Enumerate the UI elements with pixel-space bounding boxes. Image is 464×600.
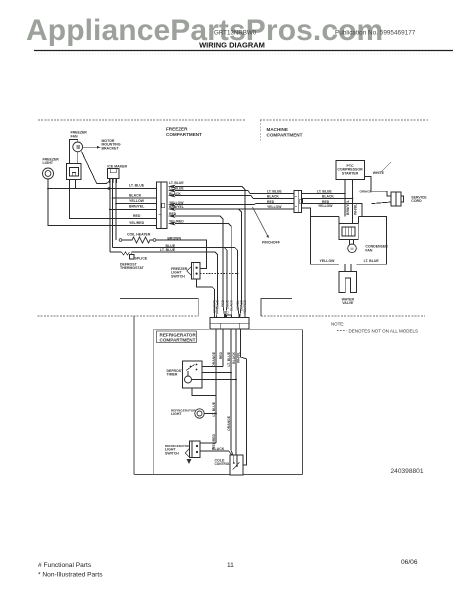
svg-text:CORD: CORD — [411, 199, 422, 203]
svg-text:LT. BLUE: LT. BLUE — [169, 187, 184, 191]
svg-text:YELLOW: YELLOW — [318, 204, 333, 208]
svg-text:TIMER: TIMER — [167, 373, 178, 377]
svg-text:VALVE: VALVE — [342, 301, 354, 305]
svg-text:SWITCH: SWITCH — [165, 451, 179, 455]
svg-text:LT. BLUE: LT. BLUE — [267, 190, 282, 194]
svg-text:YELLOW: YELLOW — [129, 199, 145, 203]
svg-text:Publication No. 5995469177: Publication No. 5995469177 — [335, 30, 416, 37]
svg-text:LT. BLUE: LT. BLUE — [212, 401, 216, 416]
svg-text:BRN/YEL: BRN/YEL — [346, 200, 350, 215]
svg-text:ORANGE: ORANGE — [227, 415, 231, 431]
svg-text:BRACKET: BRACKET — [102, 146, 120, 150]
svg-text:NOTE:: NOTE: — [331, 322, 344, 327]
svg-text:PINCHOFF: PINCHOFF — [262, 241, 281, 245]
svg-text:* Non-Illustrated Parts: * Non-Illustrated Parts — [38, 572, 103, 579]
svg-text:YEL/RED: YEL/RED — [212, 433, 216, 448]
svg-text:BRN/YEL: BRN/YEL — [129, 205, 145, 209]
svg-text:ICE MAKER: ICE MAKER — [107, 165, 127, 169]
svg-text:LT. BLUE: LT. BLUE — [227, 351, 231, 366]
svg-text:RED: RED — [169, 212, 177, 216]
svg-text:COMPARTMENT: COMPARTMENT — [267, 132, 303, 137]
svg-text:LT. BLUE: LT. BLUE — [169, 181, 184, 185]
svg-text:M: M — [351, 247, 354, 251]
svg-text:BLUE: BLUE — [166, 244, 176, 248]
svg-text:BRN/YEL: BRN/YEL — [169, 205, 184, 209]
svg-text:RED: RED — [133, 214, 141, 218]
svg-text:BROWN: BROWN — [167, 236, 181, 240]
svg-text:06/06: 06/06 — [401, 559, 418, 566]
svg-text:LIGHT: LIGHT — [171, 412, 182, 416]
svg-text:11: 11 — [227, 562, 234, 569]
svg-text:BLACK: BLACK — [129, 193, 142, 197]
svg-text:YELLOW: YELLOW — [169, 201, 184, 205]
svg-text:COMPARTMENT: COMPARTMENT — [166, 132, 202, 137]
svg-text:BLACK: BLACK — [232, 351, 236, 363]
svg-text:BLACK: BLACK — [267, 195, 279, 199]
svg-text:CONTROL: CONTROL — [215, 462, 231, 466]
svg-text:FAN: FAN — [71, 134, 78, 138]
svg-text:240398801: 240398801 — [391, 468, 424, 475]
svg-text:STARTER: STARTER — [342, 171, 359, 175]
svg-text:WIRING DIAGRAM: WIRING DIAGRAM — [199, 41, 265, 50]
svg-text:BLACK: BLACK — [230, 299, 234, 311]
svg-text:ORN/GE: ORN/GE — [360, 190, 372, 194]
svg-text:LT. BLUE: LT. BLUE — [160, 248, 176, 252]
svg-text:LT. BLUE: LT. BLUE — [129, 184, 145, 188]
svg-text:YELLOW: YELLOW — [320, 259, 336, 263]
svg-text:YELLOW: YELLOW — [267, 205, 282, 209]
svg-text:BLUE: BLUE — [216, 299, 220, 308]
svg-text:WH/BL: WH/BL — [353, 204, 357, 215]
svg-text:BLACK: BLACK — [322, 195, 334, 199]
svg-text:SWITCH: SWITCH — [171, 274, 185, 278]
svg-text:LIGHT: LIGHT — [43, 161, 54, 165]
svg-text:# Functional Parts: # Functional Parts — [38, 562, 92, 569]
svg-text:BLACK: BLACK — [169, 192, 181, 196]
svg-text:MACHINE: MACHINE — [267, 127, 288, 132]
svg-text:YEL/RED: YEL/RED — [169, 220, 184, 224]
svg-text:ORANGE: ORANGE — [212, 351, 216, 367]
svg-text:SPLICE: SPLICE — [135, 256, 148, 260]
svg-text:FAN: FAN — [365, 248, 372, 252]
svg-text:RED: RED — [219, 351, 223, 359]
svg-text:COMPARTMENT: COMPARTMENT — [160, 338, 196, 343]
svg-text:YEL/RED: YEL/RED — [129, 221, 145, 225]
svg-text:GRT13NRBW0: GRT13NRBW0 — [214, 30, 257, 37]
svg-text:YEL/RED: YEL/RED — [243, 299, 247, 314]
svg-text:WHITE: WHITE — [373, 171, 385, 175]
svg-text:FREEZER: FREEZER — [166, 127, 188, 132]
svg-text:DENOTES NOT ON ALL MODELS: DENOTES NOT ON ALL MODELS — [349, 328, 419, 333]
svg-text:RED: RED — [267, 200, 275, 204]
svg-text:WH/BL: WH/BL — [237, 352, 241, 363]
svg-text:LT. BLUE: LT. BLUE — [364, 259, 380, 263]
svg-text:THERMOSTAT: THERMOSTAT — [120, 266, 145, 270]
svg-text:COIL HEATER: COIL HEATER — [127, 232, 151, 236]
